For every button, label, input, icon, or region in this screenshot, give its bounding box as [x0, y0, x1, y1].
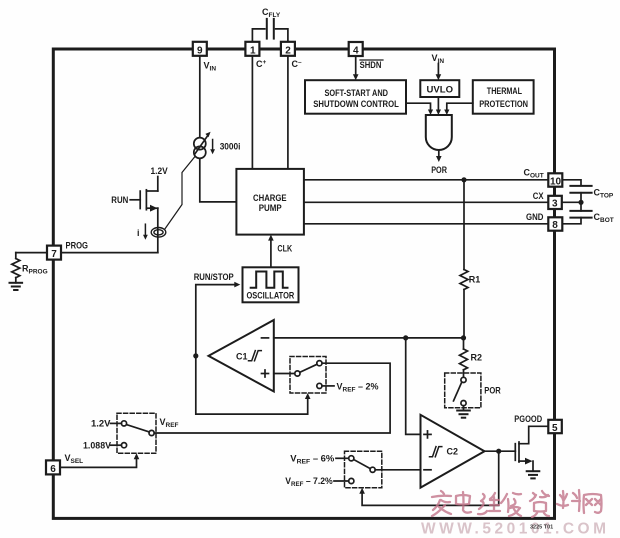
svg-text:CX: CX: [533, 191, 544, 201]
switch POR (dashed box): [445, 373, 481, 408]
label C1 plus input: [262, 370, 269, 377]
pin 4 SHDN arrow into soft-start: [353, 56, 359, 80]
wire C1 feedback to VREF-2% mux with arrow: [196, 356, 311, 414]
wire CLK oscillator to charge pump with arrow: [268, 235, 274, 268]
svg-text:SOFT-START AND: SOFT-START AND: [325, 88, 389, 98]
svg-text:5: 5: [552, 423, 558, 434]
wire COUT line charge pump to pin10: [304, 179, 548, 181]
wire RUN/STOP from C1 output node to oscillator with arrow: [196, 282, 241, 356]
label PROG: [66, 241, 89, 251]
svg-text:4: 4: [353, 46, 359, 57]
pin 7: [47, 246, 61, 260]
wire C2 plus input from R1/R2 node: [406, 338, 421, 435]
svg-text:R1: R1: [469, 275, 481, 285]
svg-text:10: 10: [550, 176, 562, 187]
wire pin1 down to charge pump: [251, 56, 253, 169]
label i with down arrow: [137, 224, 148, 240]
watermark www.520101.com: [421, 521, 610, 538]
wire C2 feedback to minus mux with arrow: [359, 451, 498, 505]
current source 3000i (two circles with arrow): [194, 132, 211, 159]
pin 6: [46, 460, 60, 474]
wire thermal to AND gate: [444, 103, 473, 115]
node R1 R2 junction: [461, 335, 466, 340]
label CLK: [277, 244, 292, 254]
svg-text:RPROG: RPROG: [22, 264, 48, 276]
svg-text:VREF: VREF: [160, 417, 179, 429]
wire transistor source down through sense ellipse to PROG: [157, 208, 159, 252]
pin 8: [548, 217, 562, 230]
pin 3: [548, 196, 562, 209]
svg-text:PROTECTION: PROTECTION: [479, 99, 528, 109]
svg-text:R2: R2: [471, 353, 483, 363]
svg-text:3225 T01: 3225 T01: [530, 525, 553, 531]
label R1: [469, 275, 481, 285]
label VREF-2%: [337, 381, 379, 393]
label 3000i with down arrow: [210, 140, 240, 155]
node CX cap junction: [578, 200, 583, 205]
wire C2 output to PGOOD gate: [485, 450, 516, 452]
svg-text:PROG: PROG: [66, 241, 89, 251]
wire PROG from pin7 to transistor branch: [61, 252, 158, 254]
label OSCILLATOR: [247, 291, 295, 301]
ground RPROG: [10, 283, 23, 290]
svg-text:RUN/STOP: RUN/STOP: [194, 272, 234, 282]
ground POR switch: [457, 411, 470, 418]
oscillator block: [243, 267, 299, 302]
pin 10: [548, 173, 562, 186]
svg-text:UVLO: UVLO: [427, 85, 454, 95]
current sense ellipse: [151, 228, 166, 238]
svg-text:VSEL: VSEL: [65, 453, 84, 465]
wire CFLY top-left vertical from pin1: [252, 29, 264, 43]
capacitor CBOT: [570, 211, 591, 218]
wire VIN to UVLO arrow: [436, 64, 442, 81]
label figure number 3225 T01: [530, 525, 553, 531]
capacitor CFLY: [267, 19, 274, 39]
svg-text:GND: GND: [526, 212, 544, 222]
switch VREF select (dashed box): [117, 413, 156, 453]
label CFLY: [262, 7, 281, 19]
svg-text:SHUTDOWN CONTROL: SHUTDOWN CONTROL: [313, 99, 399, 109]
node C2 output: [496, 449, 501, 454]
svg-text:2: 2: [285, 45, 291, 56]
wire CFLY top-right vertical from pin2: [276, 29, 288, 43]
svg-text:VREF – 2%: VREF – 2%: [337, 381, 379, 393]
pin 2: [281, 42, 295, 56]
svg-text:THERMAL: THERMAL: [487, 86, 523, 96]
wire CX line charge pump to pin3: [304, 201, 548, 203]
svg-text:C1: C1: [236, 352, 248, 362]
svg-text:PGOOD: PGOOD: [514, 414, 542, 424]
svg-text:9: 9: [197, 45, 203, 56]
block UVLO: [420, 80, 459, 97]
watermark chinese characters: [432, 490, 602, 517]
label VSEL: [65, 453, 84, 465]
wire AND output POR arrow: [436, 150, 442, 162]
label C2 minus input: [424, 469, 431, 471]
label VREF-7.2%: [285, 476, 333, 488]
switch VREF-2% (dashed box): [290, 357, 326, 394]
hysteresis symbol C2: [430, 447, 442, 457]
charge pump block U1: [236, 169, 304, 235]
oscillator waveform: [251, 272, 288, 288]
svg-text:8: 8: [552, 220, 558, 231]
block soft-start and shutdown control: [305, 80, 406, 114]
svg-text:COUT: COUT: [524, 167, 544, 179]
switch VREF-6%/-7.2% (dashed box): [345, 451, 382, 488]
label VREF: [160, 417, 179, 429]
wire VSEL pin6 to VREF switch with arrow: [59, 453, 139, 467]
label 1.2V: [91, 419, 111, 429]
wire UVLO to AND gate: [436, 97, 441, 115]
wire pin2 down to charge pump: [287, 56, 289, 169]
svg-text:C–: C–: [292, 59, 303, 69]
label RUN/STOP: [194, 272, 234, 282]
wire CTOP to CX node: [580, 193, 582, 211]
wire 1.088V to switch: [111, 444, 122, 446]
label 1.088V: [83, 440, 111, 450]
svg-text:C2: C2: [447, 447, 459, 457]
svg-text:WWW.520101.COM: WWW.520101.COM: [421, 521, 610, 538]
svg-text:POR: POR: [484, 386, 501, 396]
svg-text:PUMP: PUMP: [259, 203, 282, 213]
gate U2 AND (points down): [426, 115, 452, 150]
label C+: [256, 59, 267, 69]
wire 1.2V to switch: [111, 422, 122, 424]
label POR (switch): [484, 386, 501, 396]
block thermal protection: [473, 80, 534, 114]
pin 4: [349, 42, 363, 56]
wire VIN vertical pin9 to current source and charge pump: [200, 56, 237, 202]
node C1 output junction: [193, 353, 198, 358]
svg-text:CHARGE: CHARGE: [253, 193, 287, 203]
svg-text:VIN: VIN: [204, 61, 217, 73]
transistor Q1 (RUN PMOS): [130, 177, 158, 212]
svg-text:VREF – 7.2%: VREF – 7.2%: [285, 476, 333, 488]
svg-text:SHDN: SHDN: [360, 60, 382, 70]
wire pin10 to CTOP: [562, 180, 581, 186]
label RPROG: [22, 264, 48, 276]
svg-text:VREF – 6%: VREF – 6%: [290, 454, 334, 466]
label SHDN with overline: [360, 60, 383, 70]
wire mirror control diagonal line: [165, 157, 196, 230]
wire GND line charge pump to pin8: [304, 223, 548, 225]
svg-text:CFLY: CFLY: [262, 7, 281, 19]
svg-text:1.2V: 1.2V: [151, 166, 168, 176]
label C-: [292, 59, 303, 69]
op-amp C2 comparator: [421, 415, 485, 488]
svg-text:CLK: CLK: [277, 244, 292, 254]
label GND: [526, 212, 544, 222]
svg-text:1: 1: [250, 45, 256, 56]
svg-text:CTOP: CTOP: [594, 187, 614, 199]
pin 1: [245, 42, 259, 56]
wire C1 plus input to mux: [274, 373, 295, 375]
svg-text:RUN: RUN: [111, 195, 128, 205]
label RUN: [111, 195, 128, 205]
label COUT: [524, 167, 544, 179]
label C1 minus input: [262, 337, 269, 339]
label VIN above UVLO with arrow: [432, 53, 445, 65]
resistor RPROG: [12, 259, 20, 283]
label CBOT: [594, 212, 614, 224]
transistor Q2 PGOOD NMOS: [515, 426, 548, 471]
wire VREF routing to C1 mux top contact: [154, 363, 390, 433]
op-amp C1 (comparator, points left): [209, 320, 274, 392]
label 1.2V (transistor supply): [151, 166, 168, 176]
node C2 plus tap: [403, 335, 408, 340]
label POR (AND output): [431, 165, 447, 175]
resistor R2: [460, 341, 468, 378]
svg-text:7: 7: [51, 249, 57, 260]
wire VREF-6% label to switch: [336, 457, 349, 459]
wire VREF-2% label to switch: [322, 385, 334, 387]
svg-text:6: 6: [50, 464, 56, 475]
label R2: [471, 353, 483, 363]
svg-text:i: i: [137, 228, 140, 238]
node R1 tap on COUT line: [461, 177, 466, 182]
wire pin7 to RPROG: [16, 253, 47, 259]
resistor R1: [460, 182, 468, 335]
svg-text:3000i: 3000i: [220, 141, 241, 151]
svg-text:CBOT: CBOT: [594, 212, 614, 224]
svg-text:POR: POR: [431, 165, 447, 175]
label PGOOD: [514, 414, 542, 424]
svg-text:OSCILLATOR: OSCILLATOR: [247, 291, 295, 301]
wire soft-start to AND gate: [406, 103, 433, 115]
wire switch to C2 minus: [375, 469, 420, 471]
wire VREF-7.2% label to switch: [334, 480, 349, 482]
label CTOP: [594, 187, 614, 199]
capacitor CTOP: [570, 186, 591, 193]
svg-text:3: 3: [552, 199, 558, 210]
hysteresis symbol C1: [249, 351, 262, 361]
wire CBOT to pin8: [562, 218, 581, 224]
pin 5: [548, 420, 562, 433]
wire C1 minus input line to R1/R2 node: [274, 337, 464, 339]
svg-text:1.088V: 1.088V: [83, 440, 111, 450]
ground PGOOD: [527, 471, 540, 478]
label CX: [533, 191, 544, 201]
pin 9: [193, 42, 207, 56]
label VIN pin9: [204, 61, 217, 73]
IC boundary rectangle: [53, 49, 554, 518]
label VREF-6%: [290, 454, 334, 466]
svg-text:1.2V: 1.2V: [91, 419, 111, 429]
wire pin3 to node: [562, 201, 581, 203]
label C2 plus input: [424, 431, 431, 438]
svg-text:C+: C+: [256, 59, 267, 69]
